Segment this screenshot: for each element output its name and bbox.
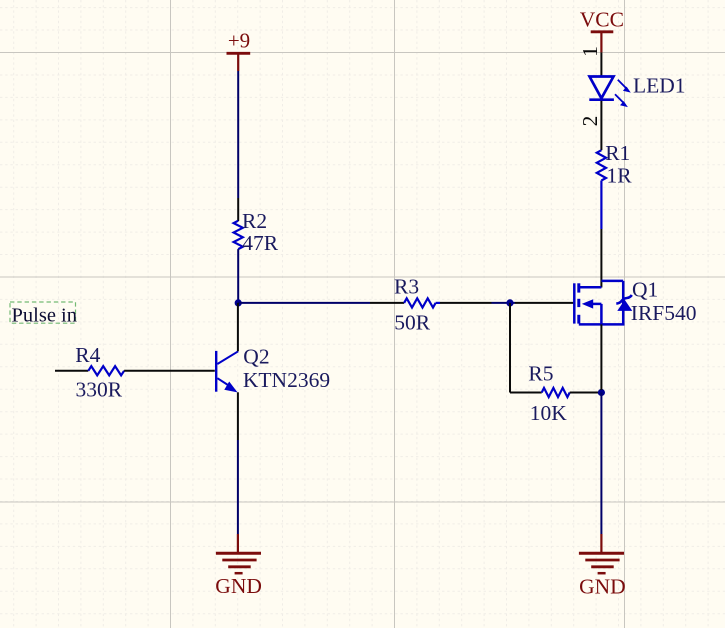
node junction A (R2/collector/main wire) xyxy=(235,299,242,306)
svg-text:GND: GND xyxy=(579,574,626,598)
wire junction B to Q1 gate xyxy=(515,302,573,304)
resistor R3 50R xyxy=(370,274,492,334)
transistor Q2 KTN2369 xyxy=(216,345,330,393)
svg-text:R3: R3 xyxy=(394,274,419,298)
wire R1 to Q1 drain xyxy=(600,181,602,230)
svg-text:47R: 47R xyxy=(242,231,278,255)
ground GND right xyxy=(579,534,626,598)
wire VCC to LED xyxy=(600,52,602,75)
svg-text:VCC: VCC xyxy=(580,8,624,32)
svg-text:Q2: Q2 xyxy=(243,345,269,369)
resistor R2 47R xyxy=(234,198,279,302)
resistor R1 1R xyxy=(597,141,632,188)
power port +9 xyxy=(227,29,251,72)
wire source to ground xyxy=(600,393,602,535)
svg-text:GND: GND xyxy=(215,574,262,598)
svg-text:IRF540: IRF540 xyxy=(631,301,697,325)
LED LED1 xyxy=(589,73,685,107)
resistor R5 10K xyxy=(510,362,598,425)
svg-text:R1: R1 xyxy=(605,141,630,165)
node junction C (source/R5) xyxy=(598,389,605,396)
power port VCC xyxy=(580,8,624,53)
wire collector pin xyxy=(237,303,239,351)
wire emitter to ground xyxy=(237,440,239,534)
wire emitter pin xyxy=(237,392,239,440)
svg-text:KTN2369: KTN2369 xyxy=(243,368,330,392)
wire R3 to junction B xyxy=(492,302,516,304)
svg-text:R4: R4 xyxy=(75,343,100,367)
resistor R4 330R xyxy=(55,343,215,401)
net label Pulse in xyxy=(10,302,77,326)
wire +9 to R2 xyxy=(237,71,239,198)
wire source pin xyxy=(600,324,602,390)
svg-text:LED1: LED1 xyxy=(633,73,686,97)
svg-text:1R: 1R xyxy=(607,163,633,187)
svg-text:1: 1 xyxy=(578,46,602,57)
svg-text:R5: R5 xyxy=(528,362,553,386)
svg-text:330R: 330R xyxy=(76,377,123,401)
svg-text:R2: R2 xyxy=(242,209,267,233)
ground GND left xyxy=(215,534,262,598)
svg-text:Pulse in: Pulse in xyxy=(12,304,78,326)
wire main row: junction A to R3 xyxy=(238,302,370,304)
svg-text:10K: 10K xyxy=(530,401,568,425)
wire LED to R1 xyxy=(600,101,602,150)
node junction B (gate node) xyxy=(506,299,513,306)
svg-text:50R: 50R xyxy=(394,310,431,334)
svg-text:2: 2 xyxy=(578,116,602,127)
mosfet Q1 IRF540 xyxy=(574,278,696,325)
wire junction B down to R5 xyxy=(509,303,511,393)
svg-text:Q1: Q1 xyxy=(632,278,658,302)
wire drain pin xyxy=(600,229,602,288)
svg-text:+9: +9 xyxy=(228,29,250,53)
